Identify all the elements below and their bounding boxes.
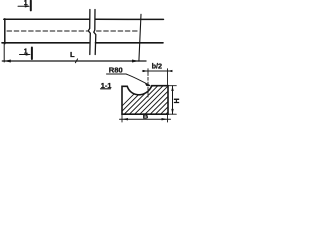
dimension B: right arrowhead [162,118,168,120]
svg-text:1: 1 [24,48,28,55]
section hatching [112,82,208,116]
label 1-1 underline [101,88,111,90]
dimension B: left arrowhead [122,118,128,120]
bar centerline (dashed, left of break) [7,30,89,32]
dimension H: top arrowhead [171,86,173,91]
dimension L: left arrowhead [4,60,11,63]
dimension b/2: right outside arrow [168,70,173,72]
section mark 1 top: arrow shaft [18,5,29,7]
bar bottom edge (right of break) [96,42,164,44]
bar bottom edge (left of break) [2,42,89,44]
dimension H: top extension [169,85,177,87]
dimension b/2: left outside arrow [142,70,148,72]
R80 leader curve [126,74,150,85]
svg-text:B: B [143,111,149,120]
bar left end edge [4,19,6,44]
bar top edge (right of break) [96,18,164,20]
section mark 1 bottom: arrow shaft [20,54,30,56]
cut-off end mark vertical [139,14,141,61]
dimension B: dimension line [120,118,171,120]
dimension b/2: middle line [148,70,168,72]
section mark 1 top: thick stroke [30,1,32,11]
dimension L: dimension line [2,60,146,62]
dimension b/2: left extension (solid top) [147,69,149,73]
break line right [94,10,96,55]
dimension H: dimension line [172,86,174,115]
section mark 1 top: arrowhead [25,5,31,7]
bar top edge (left of break) [4,18,89,20]
dimension L: right arrowhead [132,60,139,63]
dimension L: extension line left [3,44,5,62]
R80 leader shelf [107,73,127,75]
section mark 1 bottom: thick stroke [31,48,33,60]
section mark 1 bottom: arrowhead [26,53,32,55]
dimension B: left extension [121,115,123,122]
section 1-1 outline [122,86,168,115]
bar centerline (dashed, right of break) [97,30,140,32]
svg-text:H: H [172,98,181,103]
dimension H: bottom extension [169,113,177,115]
dimension b/2: right extension [167,69,169,86]
dimension H: bottom arrowhead [171,109,173,114]
svg-text:1-1: 1-1 [101,81,112,90]
groove axis line (dashed) [147,73,149,98]
R80 leader arrowhead [145,83,151,86]
dimension B: right extension [167,115,169,122]
svg-text:b/2: b/2 [152,62,162,71]
svg-text:R80: R80 [109,66,123,75]
break line left [88,10,90,55]
svg-text:1: 1 [24,0,28,7]
tick on dimension line [75,59,77,63]
svg-text:L: L [70,50,75,59]
